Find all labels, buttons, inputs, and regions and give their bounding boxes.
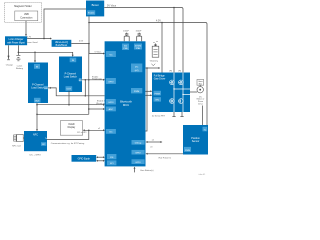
svg-text:OUT: OUT [35,100,40,102]
pin OUT switch B [66,86,73,91]
wire EN link vertical [84,80,86,96]
wire MCU PWM to bridge [146,90,153,96]
wire EN A [48,87,105,97]
svg-text:Drive: Drive [198,103,204,106]
svg-text:Vbattery: Vbattery [150,59,159,62]
svg-text:Hall Pulse Int: Hall Pulse Int [159,157,172,160]
bluetooth MCU U4 [105,41,146,166]
wire user button stub [134,167,154,173]
transistor Q2 [179,80,184,85]
svg-text:100nF: 100nF [123,30,130,32]
transistor Q1 [170,80,175,85]
wire bridge output B [183,93,190,95]
node rail taps [88,22,90,24]
svg-text:100nF: 100nF [136,30,143,32]
svg-text:I2C or SPI: I2C or SPI [77,132,87,134]
svg-text:I2C: I2C [135,66,139,68]
gear box [197,80,204,86]
wire to MCU ADC [88,108,105,110]
pin SPI [107,160,116,165]
wire expander to MCU [96,156,105,162]
charge terminal symbol [6,55,14,66]
pin EN switch B [79,78,82,82]
pin I2S [107,154,116,159]
wire 4.5V rail [89,23,207,126]
node enable junction [43,38,45,40]
wire USB to charger [25,21,27,37]
svg-text:NFC Coil: NFC Coil [12,145,21,147]
svg-text:MCU: MCU [123,103,129,107]
svg-text:Buck/Boost: Buck/Boost [56,44,68,47]
wire gearbox to motor [199,85,201,86]
wire enable net to boost [44,9,86,39]
svg-text:PWM: PWM [185,150,190,152]
svg-text:Connection: Connection [20,16,33,19]
svg-text:(x2): (x2) [135,70,139,72]
pin GPIO en [106,78,116,84]
USB connection box [15,11,38,21]
pin PWM [131,88,142,93]
svg-text:Communication e.g. for BT Pair: Communication e.g. for BT Pairing [51,142,85,145]
svg-text:4.5V: 4.5V [79,41,84,43]
GPIO expander U8 [72,155,97,162]
svg-text:GPIO Expdr: GPIO Expdr [78,158,91,161]
wire charger to charge terminal [8,45,10,55]
position sensor U6 [183,125,208,155]
capacitor C1 100nF [123,30,130,41]
svg-text:Battery: Battery [16,67,24,70]
NFC transceiver U7 [24,131,47,151]
svg-text:Box: Box [199,83,202,85]
svg-text:with Power Mgmt: with Power Mgmt [7,41,25,44]
wire MCU I2C bus [146,67,161,131]
node out A taps [36,104,38,106]
svg-text:Display: Display [68,127,76,129]
svg-text:I2S: I2S [110,157,114,159]
boost converter U3 [86,1,104,17]
svg-text:GPIO: GPIO [135,162,141,164]
pin IN switch B [70,58,77,63]
svg-text:ADC: ADC [109,108,114,111]
pin PWM bridge [154,91,162,96]
svg-text:Power Good: Power Good [26,41,38,44]
wire enable IoT net [37,101,108,106]
svg-text:Tx: Tx [45,138,47,140]
svg-text:NFC: NFC [33,134,38,137]
wire OLED to MCU [83,128,105,131]
svg-text:Sensor: Sensor [192,140,200,143]
svg-text:I2C: I2C [109,132,113,134]
svg-text:VM: VM [178,71,181,73]
node out B join [68,104,70,106]
pin 32k XTAL [122,44,129,51]
wire 5V Vbus rail top [104,8,183,73]
svg-text:Charge: Charge [6,63,14,66]
li-ion charger U1 [5,36,27,45]
svg-text:XTAL: XTAL [136,47,141,50]
svg-text:4x Sense FET: 4x Sense FET [152,115,166,117]
svg-text:GPIO: GPIO [108,102,114,104]
wire charger to buck [26,37,52,44]
wire second rail [37,113,89,115]
pin IN switch A [34,64,40,69]
node buck output tap [88,43,90,45]
svg-text:Load Switch: Load Switch [31,87,45,90]
svg-text:tida-01: tida-01 [199,173,206,176]
wire charger to battery [17,45,19,55]
svg-text:I2C + GPIO: I2C + GPIO [30,155,42,157]
svg-text:Li-Ion Charger: Li-Ion Charger [9,38,24,41]
pin PWM sensor [184,147,191,152]
pin OUT switch A [34,98,41,103]
svg-text:Debug: Debug [135,143,142,145]
pin Tx sensor [203,127,208,132]
pin GPIO btn [132,159,145,164]
svg-text:Boost: Boost [92,3,99,7]
NFC coil antenna [12,134,24,147]
svg-text:GPIO: GPIO [108,81,114,83]
svg-text:GPIO: GPIO [135,153,141,155]
svg-text:Gate Driver: Gate Driver [154,78,166,81]
pin Vin [106,51,116,57]
full bridge gate driver U5 [152,73,190,113]
svg-text:Peripherals: Peripherals [92,79,102,81]
svg-text:Magnetic Holder: Magnetic Holder [14,5,32,8]
pin I2C [106,129,116,134]
svg-text:5 Vbus: 5 Vbus [95,52,103,54]
node vbus tap [173,7,175,9]
svg-text:OLED: OLED [68,124,75,126]
svg-text:PWM: PWM [155,93,161,95]
svg-text:VM: VM [169,71,172,73]
magnetic holder dashed enclosure [5,2,42,22]
pin I2C x2 [131,64,142,73]
pin GPIO iot [106,99,116,105]
wire bridge rail left [173,73,175,113]
wire switch B output down [68,91,70,105]
pin 32M XTAL [134,44,142,50]
svg-text:Full Bridge: Full Bridge [154,75,166,78]
pin EN switch A [44,86,48,90]
OLED display [60,121,86,136]
wire motor link [190,91,197,93]
wire buck output 4.5V [71,41,89,44]
wire NFC tx riser [47,130,89,145]
wire boost output down [88,16,90,53]
capacitor C2 100nF [136,30,143,41]
wire battery rail to load switches [18,52,73,57]
load switch A [28,63,48,104]
wire motor to position sensor [202,106,204,126]
svg-text:5V Vbus: 5V Vbus [107,5,117,8]
wire debug [146,139,163,143]
transistor Q3 [170,99,175,104]
wire vbus to bridge left rail [173,8,175,73]
node battery junction [18,52,20,54]
load switch B [59,57,82,93]
svg-text:0.7V: 0.7V [27,37,32,39]
node switch A tap [34,52,36,54]
pin GPIO hall [132,150,145,155]
svg-text:Ultra-Low-IQ: Ultra-Low-IQ [55,41,68,44]
pin Debug [132,140,145,145]
pin ADC [106,107,116,112]
transistor Q4 [179,99,184,104]
svg-text:Enable: Enable [88,13,95,15]
battery B1 li-ion [16,56,24,70]
svg-text:SPI: SPI [110,163,114,165]
wire into switch A [34,52,36,62]
svg-text:XTAL: XTAL [123,47,128,50]
pin Tx NFC [41,138,47,146]
wire bridge output A [174,88,190,90]
svg-text:Load Switch: Load Switch [64,76,78,79]
wire switch A output down [36,103,38,131]
pin EN bridge [154,97,162,102]
svg-text:EN: EN [44,88,47,90]
buck-boost converter U2 [52,40,72,47]
label DC motor [197,96,205,105]
wire rail to MCU Vin [89,52,105,55]
svg-text:User Button(s): User Button(s) [140,169,154,172]
svg-text:PWM: PWM [134,91,140,93]
wire enable net vertical [88,44,90,115]
wire hall pulse int [146,146,183,159]
wire EN B to MCU GPIO [82,76,105,81]
wire rail to bridge VM [161,23,163,73]
svg-text:4.5V: 4.5V [156,19,161,22]
svg-text:EN: EN [156,100,159,102]
motor M1 [197,87,203,93]
wire bridge rail right [182,73,184,113]
svg-text:OUT: OUT [66,89,71,91]
wire bridge sense stubs [152,112,184,117]
battery V_battery [150,41,159,65]
